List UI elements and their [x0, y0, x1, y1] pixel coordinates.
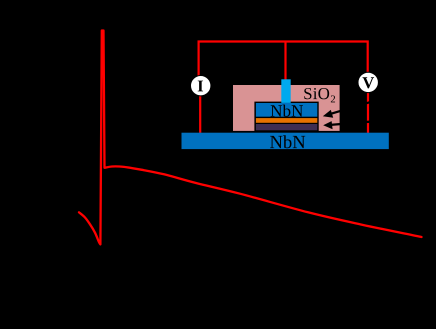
wire: arrow 1 pointer line (crosses V wire making gap) — [330, 101, 375, 114]
node: device mesa stack border — [254, 102, 318, 132]
node: barrier layer (orange) — [256, 118, 317, 123]
wire: red data curve (descent, spike, decaying tail) — [79, 31, 422, 245]
node: arrow 1 head — [323, 110, 333, 118]
value label NbN (top layer) — [271, 105, 303, 117]
node: cyan top contact plug — [281, 79, 290, 103]
node: SiO2 passivation block (pink) — [233, 85, 340, 131]
node: ammeter I circle — [191, 76, 211, 96]
node: top NbN layer (blue) — [256, 103, 317, 117]
node: arrow 2 head — [323, 121, 332, 129]
wire: arrow 2 pointer line (crosses V wire making gap) — [331, 121, 375, 125]
node: voltmeter V circle — [358, 72, 378, 92]
value label NbN (bottom electrode) — [270, 135, 305, 148]
node: lower layer (dark purple) — [256, 124, 317, 130]
value label SiO2 — [304, 88, 335, 102]
node: bottom NbN electrode bar — [182, 133, 389, 149]
wire: red measurement loop (top + left + center + right verticals) — [199, 42, 368, 133]
